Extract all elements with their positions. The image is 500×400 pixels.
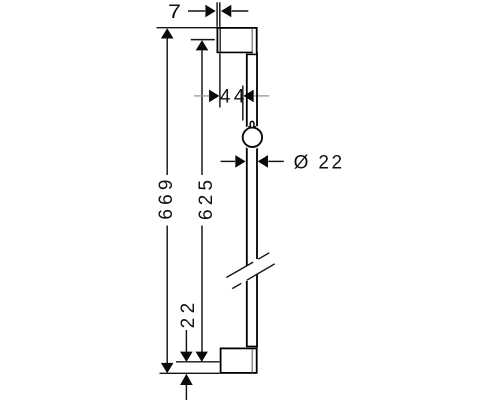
svg-text:7: 7 <box>168 2 181 23</box>
svg-text:625: 625 <box>196 176 217 220</box>
svg-text:44: 44 <box>220 87 248 108</box>
svg-text:22: 22 <box>178 298 199 328</box>
svg-text:669: 669 <box>156 175 177 219</box>
svg-text:22: 22 <box>318 152 344 173</box>
svg-text:Ø: Ø <box>294 152 309 173</box>
